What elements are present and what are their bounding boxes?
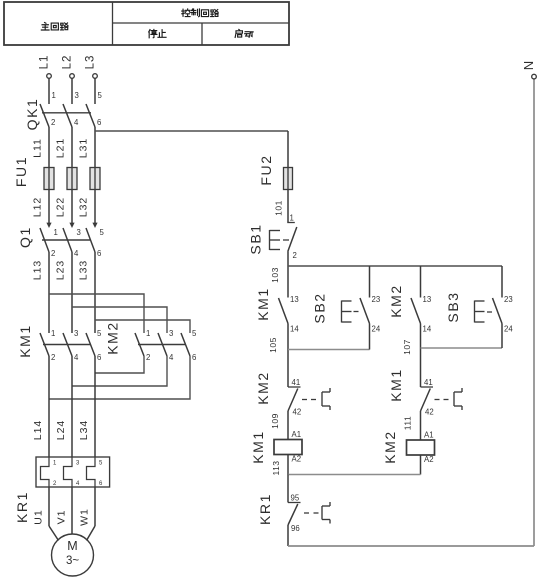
KM1 pins 1 3 5 (51, 329, 102, 338)
wire L21 (55, 127, 73, 168)
KM2 pole 3 blade (181, 333, 190, 356)
wire L34 (78, 356, 95, 457)
svg-text:2: 2 (51, 118, 55, 127)
svg-text:A2: A2 (424, 455, 434, 464)
svg-text:14: 14 (290, 325, 299, 334)
svg-text:23: 23 (372, 295, 381, 304)
svg-text:SB1: SB1 (248, 223, 264, 254)
svg-text:2: 2 (51, 353, 55, 362)
wire L23 (55, 252, 73, 333)
svg-text:4: 4 (74, 118, 79, 127)
wire L22 (55, 190, 73, 224)
label 主回路 (41, 23, 68, 30)
Q1 pole 1 blade (40, 228, 49, 252)
svg-text:6: 6 (192, 353, 196, 362)
QK1 pole 3 blade (86, 104, 95, 127)
svg-text:95: 95 (291, 494, 300, 503)
QK1 pole 2 blade (63, 104, 72, 127)
svg-text:L23: L23 (55, 260, 67, 281)
svg-text:6: 6 (97, 353, 101, 362)
svg-text:5: 5 (192, 329, 197, 338)
svg-text:KM1: KM1 (250, 430, 266, 464)
wire U1 (33, 487, 59, 541)
svg-text:V1: V1 (56, 510, 68, 525)
svg-text:4: 4 (169, 353, 174, 362)
svg-text:5: 5 (100, 228, 105, 237)
svg-text:5: 5 (97, 329, 102, 338)
svg-text:3~: 3~ (66, 555, 79, 567)
stop button SB1 (248, 214, 297, 261)
Q1 pins 2 4 6 (51, 249, 101, 258)
wire KM2 pole1 to phase3 (95, 356, 144, 373)
contactor KM1 main label (17, 324, 33, 358)
svg-text:41: 41 (424, 378, 433, 387)
start button SB3 (445, 291, 513, 333)
Q1 pole 3 blade (86, 228, 95, 252)
svg-text:KR1: KR1 (14, 491, 30, 523)
svg-text:105: 105 (268, 337, 278, 353)
svg-text:L3: L3 (85, 55, 97, 70)
svg-text:W1: W1 (79, 508, 91, 526)
wire to N rail (288, 525, 534, 546)
svg-text:1: 1 (52, 91, 56, 100)
svg-text:A1: A1 (424, 431, 434, 440)
svg-text:L34: L34 (78, 420, 90, 441)
svg-text:FU2: FU2 (258, 154, 274, 185)
wire L23 tap to KM2 pole2 (72, 307, 167, 333)
KM2 linkage bar (138, 344, 186, 346)
table frame 主回路/控制回路 (4, 2, 289, 45)
wire L14 (32, 356, 49, 457)
svg-text:2: 2 (293, 251, 297, 260)
wire KM2 pole3 to phase1 (49, 356, 190, 399)
wire node 105 (268, 324, 370, 388)
svg-text:A2: A2 (292, 455, 302, 464)
thermal relay KR1 (14, 457, 110, 523)
svg-text:KM2: KM2 (382, 430, 398, 464)
KM1 linkage bar (43, 344, 91, 346)
KM2 pole 2 blade (158, 333, 167, 356)
svg-text:Q1: Q1 (17, 226, 33, 248)
coil KM2 (382, 430, 435, 474)
wire feed to control circuit (95, 131, 288, 168)
svg-text:KM2: KM2 (105, 321, 121, 355)
svg-text:U1: U1 (33, 509, 45, 524)
svg-text:1: 1 (290, 214, 294, 223)
label 停止 (149, 29, 166, 37)
svg-text:L14: L14 (32, 420, 44, 441)
svg-text:L12: L12 (32, 197, 44, 218)
svg-text:4: 4 (74, 249, 79, 258)
breaker Q1 label (17, 226, 33, 248)
svg-text:L22: L22 (55, 197, 67, 218)
wire 109 (270, 411, 301, 440)
svg-text:L1: L1 (39, 55, 51, 70)
coil KM1 (250, 430, 302, 474)
Q1 linkage bar (42, 239, 91, 241)
QK1 pins 2 4 6 (51, 118, 101, 127)
svg-text:3: 3 (169, 329, 173, 338)
wire 101 (274, 190, 289, 223)
svg-text:23: 23 (504, 295, 513, 304)
svg-text:103: 103 (270, 267, 280, 283)
wire V1 (56, 487, 73, 534)
svg-text:QK1: QK1 (24, 98, 40, 131)
svg-text:42: 42 (293, 408, 302, 417)
QK1 pole 1 blade (40, 104, 49, 127)
svg-text:1: 1 (54, 228, 58, 237)
overload contact KR1 95-96 (257, 493, 330, 533)
KM2 pins 2 4 6 (146, 353, 196, 362)
svg-text:L32: L32 (78, 197, 90, 218)
svg-text:KR1: KR1 (257, 493, 273, 525)
KM1 pole 2 blade (63, 333, 72, 356)
start button SB2 (312, 292, 381, 333)
wire 103 (270, 252, 288, 298)
interlock contact KM1 41-42 (388, 368, 462, 416)
svg-text:KM1: KM1 (388, 368, 404, 402)
wire L31 (78, 127, 96, 168)
svg-text:41: 41 (292, 378, 301, 387)
svg-text:113: 113 (271, 460, 281, 475)
svg-text:13: 13 (423, 295, 432, 304)
svg-text:96: 96 (291, 524, 300, 533)
svg-text:KM1: KM1 (255, 287, 271, 321)
svg-text:111: 111 (403, 416, 413, 430)
wire L24 (55, 356, 72, 457)
svg-text:L2: L2 (62, 55, 74, 70)
switch QK1 label (24, 98, 40, 131)
svg-text:42: 42 (425, 408, 434, 417)
svg-text:13: 13 (290, 295, 299, 304)
svg-text:A1: A1 (292, 430, 302, 439)
KM1 pole 1 blade (40, 333, 49, 356)
svg-text:14: 14 (423, 325, 432, 334)
terminal L1 (39, 55, 52, 104)
Q1 pole 2 blade (63, 228, 72, 252)
svg-text:1: 1 (146, 329, 150, 338)
svg-text:KM2: KM2 (255, 371, 271, 405)
wire L32 (78, 190, 96, 224)
svg-text:6: 6 (97, 118, 101, 127)
label 启动 (235, 29, 253, 37)
fuse FU2 (258, 154, 293, 189)
KM2 pole 1 blade (135, 333, 144, 356)
wire 111 (403, 411, 434, 440)
motor M 3~ (52, 534, 94, 576)
KM2 pins 1 3 5 (146, 329, 197, 338)
svg-text:109: 109 (270, 413, 280, 429)
svg-text:5: 5 (98, 91, 103, 100)
wire L13 tap to KM2 pole1 (49, 294, 144, 333)
svg-text:L33: L33 (78, 260, 90, 281)
svg-text:L13: L13 (32, 260, 44, 281)
wire L33 tap to KM2 pole3 (95, 320, 190, 333)
svg-text:107: 107 (402, 339, 412, 355)
wire node 113 (271, 460, 421, 502)
terminal L3 (85, 55, 98, 104)
contactor KM2 main label (105, 321, 121, 355)
svg-text:N: N (521, 61, 536, 70)
N rail (521, 61, 536, 546)
svg-text:L21: L21 (55, 138, 67, 159)
svg-text:KM1: KM1 (17, 324, 33, 358)
svg-text:FU1: FU1 (13, 156, 29, 187)
Q1 pins 1 3 5 (54, 228, 105, 237)
svg-text:L24: L24 (55, 420, 67, 441)
label 控制回路 (182, 9, 218, 17)
wire L11 (32, 127, 50, 168)
svg-text:24: 24 (504, 325, 513, 334)
svg-text:L31: L31 (78, 138, 90, 159)
QK1 linkage bar (42, 112, 91, 114)
svg-text:SB2: SB2 (312, 292, 328, 323)
branch rail node 103 (288, 266, 502, 298)
wire L12 (32, 190, 50, 224)
terminal L2 (62, 55, 75, 104)
Q1 contact arrows (46, 223, 97, 228)
svg-text:2: 2 (146, 353, 150, 362)
svg-text:SB3: SB3 (445, 291, 461, 322)
fuse FU1 (13, 156, 100, 190)
svg-text:4: 4 (74, 353, 79, 362)
svg-text:24: 24 (372, 325, 381, 334)
svg-text:M: M (67, 539, 77, 553)
wire L13 (32, 252, 50, 333)
svg-text:3: 3 (74, 329, 78, 338)
contact KM2 13-14 (388, 284, 432, 333)
KM1 pins 2 4 6 (51, 353, 101, 362)
svg-text:101: 101 (274, 200, 284, 216)
wire node 107 (402, 324, 502, 388)
svg-text:3: 3 (77, 228, 81, 237)
svg-text:L11: L11 (32, 138, 44, 158)
svg-text:KM2: KM2 (388, 284, 404, 318)
QK1 pins 1 3 5 (52, 91, 103, 100)
interlock contact KM2 41-42 (255, 371, 330, 416)
svg-text:2: 2 (51, 249, 55, 258)
KM1 pole 3 blade (86, 333, 95, 356)
svg-text:1: 1 (51, 329, 55, 338)
svg-text:6: 6 (97, 249, 101, 258)
wire W1 (79, 487, 96, 541)
contact KM1 13-14 (255, 287, 299, 333)
svg-text:3: 3 (75, 91, 79, 100)
wire L33 (78, 252, 96, 333)
wire KM2 pole2 to phase2 (72, 356, 167, 386)
